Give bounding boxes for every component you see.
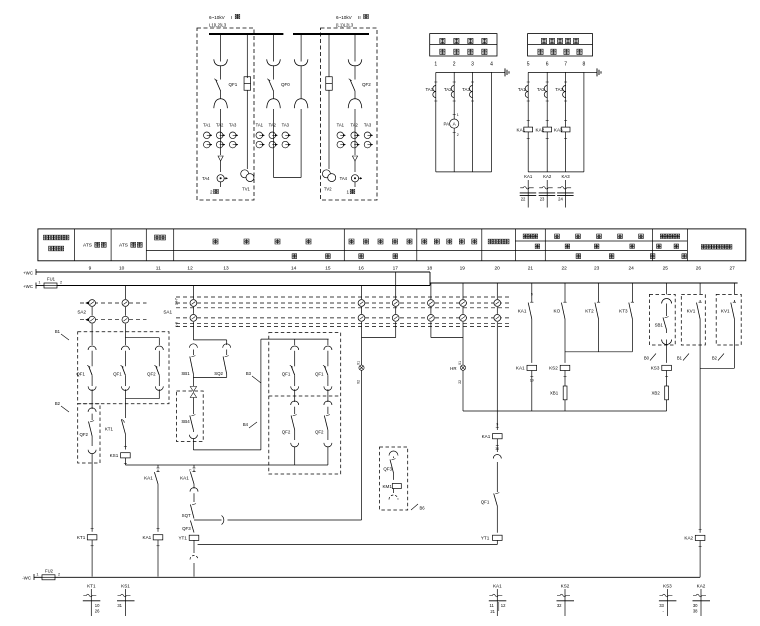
svg-text:QF1: QF1 (229, 82, 238, 87)
svg-text:24: 24 (629, 266, 635, 272)
control switch SA1 row1 dashed bundle (176, 296, 512, 298)
svg-text:2: 2 (210, 190, 213, 195)
wire SB4 to B3 feed (192, 438, 194, 450)
wire drop SA1 col12 (192, 286, 194, 300)
metering circuit frame wires (436, 71, 492, 73)
wire col21 to coil (531, 321, 533, 363)
svg-text:9: 9 (89, 266, 92, 272)
wire QF1 to QF2 col15 (327, 389, 329, 402)
table cell self hold (523, 234, 527, 238)
dashed box pushbutton SB2 col25 (666, 283, 668, 294)
wire net465 (125, 464, 328, 466)
svg-text:1: 1 (347, 190, 350, 195)
table cell signal block (660, 234, 664, 238)
svg-text:TA2: TA2 (351, 123, 359, 128)
breaker aux QF2 col9 (88, 408, 96, 412)
wire col26 down (699, 344, 701, 533)
table cell trip transfer (349, 239, 354, 244)
drawout plug col12 (193, 486, 195, 489)
box B3 callout (252, 376, 261, 383)
relay contact KT3 col24 (631, 283, 633, 300)
trip coil YT1 (189, 535, 199, 540)
svg-text:KV1: KV1 (687, 308, 696, 313)
svg-text:20: 20 (495, 266, 501, 272)
pushbutton SB1 (189, 344, 197, 348)
wire col9 B1 to B2 (91, 389, 93, 409)
svg-text:ATS: ATS (119, 243, 128, 249)
breaker aux contact QF3 col12 (190, 521, 194, 533)
wire col9 to KT1 coil (91, 453, 93, 531)
wire col22 to net411 (564, 400, 566, 411)
svg-text:KA2: KA2 (543, 174, 552, 179)
svg-text:2: 2 (453, 62, 456, 68)
wire QF1 to QF2 col14 (294, 389, 296, 402)
svg-text:12: 12 (187, 266, 193, 272)
breaker QF2 with drawout plugs (354, 34, 356, 62)
breaker aux QF2 col14 (291, 401, 299, 405)
wire KA2 to -WC (699, 541, 701, 578)
aux contact QF3 in box (393, 457, 395, 459)
wire link col10 to col13 top (125, 337, 159, 339)
svg-text:12: 12 (501, 603, 506, 608)
CT secondary TA3 metering (470, 86, 473, 98)
svg-text:KA1: KA1 (493, 584, 502, 589)
busbar I 6~10kV (209, 33, 283, 35)
svg-text:TV1: TV1 (242, 187, 250, 192)
wire col10 to net465 (124, 458, 126, 465)
svg-text:-WC: -WC (22, 576, 31, 581)
dashed box B1 breaker aux contacts (78, 332, 169, 404)
wire SA2 col10 between rows (124, 307, 126, 316)
svg-text:B6: B6 (420, 506, 426, 511)
table cell energy storage (155, 235, 160, 240)
test jack X plug col12 (192, 377, 194, 386)
table cell control bus fuse (44, 235, 49, 240)
voltage transformer TV2 (322, 170, 330, 178)
svg-text:TA2: TA2 (537, 87, 545, 92)
svg-text:15: 15 (325, 266, 331, 272)
dashed box B2 (78, 404, 100, 463)
svg-text:B1: B1 (677, 356, 683, 361)
svg-text:KM1: KM1 (382, 484, 392, 489)
svg-text:1: 1 (457, 113, 459, 117)
table column dividers (74, 229, 76, 261)
table cell close transfer (422, 239, 427, 244)
svg-text:SB4: SB4 (181, 419, 190, 424)
svg-text:7: 7 (564, 62, 567, 68)
wire link col16 col17 (361, 322, 363, 338)
table cell overcurrent protection (555, 234, 560, 239)
current relay coil KA2 (543, 127, 552, 132)
svg-text:QF2: QF2 (315, 430, 324, 435)
wire SA2 col9 between rows (91, 307, 93, 316)
surge arrester feeder I (218, 156, 223, 161)
bus-tie breaker QF0 with drawout plugs (273, 34, 275, 62)
connector line SQT to X plug (194, 519, 222, 521)
svg-text:FU2: FU2 (45, 569, 54, 574)
wire col11 to -WC (157, 540, 159, 577)
signal relay coil KS1 (124, 446, 127, 448)
svg-text:SQT: SQT (182, 513, 191, 518)
ground metering circuit (492, 71, 500, 73)
svg-text:TA3: TA3 (364, 123, 372, 128)
svg-text:SQ2: SQ2 (214, 371, 223, 376)
svg-text:KA1: KA1 (524, 174, 533, 179)
wire drop col17 (395, 272, 397, 299)
svg-text:27: 27 (730, 266, 736, 272)
svg-text:TV2: TV2 (324, 187, 332, 192)
resistor XB1 (564, 371, 566, 387)
svg-text:XB1: XB1 (550, 391, 559, 396)
breaker aux QF1 col9 (88, 346, 96, 350)
limit switch contact SQT (190, 505, 194, 519)
svg-text:23: 23 (594, 266, 600, 272)
wire col9 to -WC (91, 540, 93, 577)
trip coil YT2 (493, 535, 503, 540)
wire bus-tie bottom link (274, 177, 302, 179)
svg-text:QF1: QF1 (282, 372, 291, 377)
wire col20 mid (496, 462, 498, 492)
svg-text:B4: B4 (243, 422, 249, 427)
wire net411 (463, 410, 667, 412)
protection circuit header box (528, 34, 593, 56)
table sub row chars close trip (292, 254, 297, 259)
relay coil KA1 col21 (527, 365, 537, 370)
svg-text:22: 22 (458, 380, 462, 384)
svg-text:24: 24 (558, 197, 563, 202)
svg-text:4: 4 (490, 62, 493, 68)
svg-text:KT1: KT1 (105, 426, 114, 431)
dashed box SB4 (177, 391, 204, 442)
svg-text:SB1: SB1 (181, 371, 190, 376)
dashed box KV2 col27 (733, 283, 735, 294)
svg-text:17: 17 (393, 266, 399, 272)
svg-text:TA2: TA2 (216, 123, 224, 128)
svg-text:KA2: KA2 (697, 584, 706, 589)
svg-text:2: 2 (60, 281, 62, 285)
svg-text:QF0: QF0 (281, 82, 290, 87)
svg-text:YT1: YT1 (178, 536, 187, 541)
svg-text:X2: X2 (356, 380, 360, 384)
SA1 row2 dashed bundle (176, 317, 512, 319)
wire col10 into B1 (124, 324, 126, 345)
wire col23 to link (598, 321, 600, 352)
box B1 callout (61, 334, 69, 340)
wire col10 down (124, 399, 126, 418)
svg-text:13: 13 (223, 266, 229, 272)
relay contact KV1 col26 (699, 300, 701, 302)
svg-text:TA3: TA3 (229, 123, 237, 128)
svg-text:11: 11 (489, 603, 494, 608)
wire drop col16 (361, 286, 363, 300)
svg-text:1: 1 (38, 281, 40, 285)
svg-text:SA2: SA2 (77, 310, 86, 315)
protection circuit frame wires (528, 71, 584, 73)
SA2 row2 dashed link (80, 319, 147, 321)
CT secondary TA2 protection (544, 86, 547, 98)
PT fuse cell I (246, 34, 248, 77)
svg-text:QF1: QF1 (76, 372, 85, 377)
svg-text:KA1: KA1 (482, 434, 491, 439)
wire col11 to coil (157, 486, 159, 532)
drawout plug below YT1 (193, 540, 195, 553)
wire link col26 col27 (733, 344, 735, 368)
wire link col22-24 (565, 351, 632, 353)
wire B3 feed horizontal (261, 338, 329, 340)
ground protection circuit (584, 71, 591, 73)
svg-text:L1(L2)L3: L1(L2)L3 (209, 23, 227, 28)
svg-text:TA1: TA1 (518, 87, 526, 92)
wire drop col20 (496, 283, 498, 299)
svg-text:+WC: +WC (23, 284, 33, 289)
svg-text:QF2: QF2 (362, 82, 371, 87)
node net465 col11 (157, 465, 159, 468)
svg-text:23: 23 (540, 197, 545, 202)
svg-text:+WC: +WC (23, 270, 33, 275)
wire col25 to net411 (666, 400, 668, 411)
svg-text:TA2: TA2 (269, 123, 277, 128)
svg-text:9: 9 (531, 293, 533, 297)
svg-text:B2: B2 (55, 401, 61, 406)
svg-text:6~10kV: 6~10kV (209, 15, 226, 20)
svg-text:38: 38 (693, 609, 698, 614)
svg-text:QF2: QF2 (147, 372, 156, 377)
svg-text:30: 30 (693, 603, 698, 608)
svg-text:TA3: TA3 (555, 87, 563, 92)
svg-text:9: 9 (496, 423, 498, 427)
CT secondary TA2 metering (451, 86, 454, 98)
wire link SB1 SQ2 bottom (192, 374, 194, 377)
svg-text:KV1: KV1 (721, 308, 730, 313)
svg-text:B0: B0 (644, 356, 650, 361)
SA2 row2 contact circles (89, 316, 96, 323)
incoming section II dashed cubicle box (321, 28, 378, 200)
surge arrester feeder II (352, 156, 357, 161)
svg-text:KA1: KA1 (180, 476, 189, 481)
svg-text:KT1: KT1 (77, 535, 86, 540)
svg-text:16: 16 (358, 266, 364, 272)
relay coil KA2 (699, 529, 702, 531)
svg-text:KS1: KS1 (110, 453, 119, 458)
current relay coil KA1 (524, 127, 533, 132)
svg-text:B2: B2 (712, 356, 718, 361)
svg-text:B1: B1 (55, 329, 61, 334)
wire col12 row2 down (192, 322, 194, 340)
svg-text:QF2: QF2 (79, 432, 88, 437)
table sub row chars signal circuit (576, 254, 581, 259)
svg-text:KA3: KA3 (562, 174, 571, 179)
box B3 internal divider (269, 395, 341, 397)
relay contact KT2 col23 (598, 283, 600, 300)
svg-text:KT2: KT2 (585, 308, 594, 313)
svg-text:19: 19 (460, 266, 466, 272)
CT secondary TA1 metering (433, 86, 436, 98)
svg-text:5: 5 (527, 62, 530, 68)
svg-text:KA2: KA2 (536, 127, 545, 132)
svg-text:XB2: XB2 (651, 391, 660, 396)
svg-text:TA1: TA1 (256, 123, 264, 128)
busbar II 6~10kV (293, 33, 369, 35)
svg-text:KA1: KA1 (144, 476, 153, 481)
table row divider right upper (515, 240, 687, 242)
breaker aux QF2 col13 (155, 346, 163, 350)
svg-text:25: 25 (663, 266, 669, 272)
svg-text:TA4: TA4 (340, 176, 348, 181)
svg-text:SB1: SB1 (655, 322, 664, 327)
svg-text:1: 1 (434, 62, 437, 68)
svg-text:KO: KO (554, 308, 561, 313)
svg-text:KS2: KS2 (561, 584, 570, 589)
breaker aux QF1 col20 (494, 494, 498, 507)
current relay coil KA3 (561, 127, 570, 132)
svg-text:X1: X1 (356, 361, 360, 365)
wire col22 down (564, 321, 566, 363)
svg-text:KS1: KS1 (121, 584, 130, 589)
wires B3 columns to net465 (294, 447, 296, 466)
wire col21 to net411 (531, 371, 533, 412)
svg-text:31: 31 (117, 603, 122, 608)
svg-text:TA2: TA2 (444, 87, 452, 92)
svg-text:KT3: KT3 (619, 308, 628, 313)
svg-text:21: 21 (528, 266, 534, 272)
wire YT link (496, 540, 498, 544)
svg-text:KA1: KA1 (516, 366, 525, 371)
voltage transformer TV1 (241, 170, 249, 178)
relay contact KA1 col11 (157, 470, 159, 472)
svg-text:33: 33 (659, 603, 664, 608)
box B2 callout (61, 406, 69, 412)
svg-text:32: 32 (557, 603, 562, 608)
incoming section I dashed cubicle box (197, 28, 254, 200)
wire link col18 col19 (430, 322, 432, 338)
svg-text:11: 11 (156, 266, 161, 272)
svg-text:TA3: TA3 (282, 123, 290, 128)
plug arc below KM1 (393, 489, 395, 494)
wire link col10 col13 bottom (124, 389, 126, 398)
signal relay coil KS3 (662, 365, 672, 370)
svg-text:QF3: QF3 (182, 526, 191, 531)
plug arc in QF3 box (389, 451, 398, 456)
svg-text:8: 8 (583, 62, 586, 68)
svg-text:2: 2 (58, 572, 60, 576)
svg-text:24-7: 24-7 (175, 298, 179, 305)
table sub row chars protect device (535, 244, 539, 248)
callout B0 col25 (650, 354, 656, 361)
SA2 row1 contact circles (89, 300, 96, 307)
relay coil KA1 col11 (157, 528, 160, 530)
svg-text:TA4: TA4 (202, 176, 210, 181)
time relay coil KT1 (91, 528, 94, 530)
wire drop col18 (430, 283, 432, 299)
drawout plug col20 (496, 439, 498, 452)
rail step at x430 (429, 272, 431, 286)
metering circuit header box (430, 34, 497, 56)
wire drop col19 (462, 283, 464, 299)
svg-text:ATS: ATS (83, 243, 92, 249)
svg-text:TA1: TA1 (425, 87, 433, 92)
svg-text:QF1: QF1 (481, 500, 490, 505)
time delay contact KT1 (121, 420, 124, 423)
svg-text:FU1: FU1 (47, 277, 56, 282)
svg-text:II: II (358, 15, 361, 21)
svg-text:YT1: YT1 (481, 536, 490, 541)
svg-text:QF1: QF1 (113, 372, 122, 377)
svg-text:QF1: QF1 (315, 372, 324, 377)
dashed box B3 (269, 333, 341, 475)
breaker aux QF1 col14 (291, 346, 299, 350)
relay contact KV2 col27 (733, 300, 735, 302)
CT secondary TA3 protection (563, 86, 566, 98)
svg-text:QF3: QF3 (383, 466, 392, 471)
relay coil KA1 col20 (496, 426, 499, 428)
svg-text:KA1: KA1 (143, 535, 152, 540)
contactor coil KM1 (393, 473, 395, 480)
svg-text:26: 26 (696, 266, 702, 272)
protection header text row1 (541, 38, 546, 43)
svg-text:26: 26 (95, 609, 100, 614)
callout B1 col26 (683, 354, 689, 361)
CT secondary TA1 protection (525, 86, 528, 98)
relay contact KO col22 (564, 283, 566, 300)
PT fuse cell II (328, 34, 330, 77)
table cell power monitor circuit (701, 245, 706, 250)
svg-text:22: 22 (562, 266, 568, 272)
svg-text:KS2: KS2 (549, 366, 558, 371)
svg-text:SA1: SA1 (163, 310, 172, 315)
svg-text:X1: X1 (458, 361, 462, 365)
limit switch SQ2 (223, 344, 231, 348)
SA1 row2 contact circles (190, 315, 197, 322)
svg-text:HR: HR (450, 366, 456, 371)
breaker QF1 with drawout plugs (220, 34, 222, 62)
wire col9 into B1 (91, 324, 93, 345)
svg-text:KS3: KS3 (663, 584, 672, 589)
svg-text:TA1: TA1 (203, 123, 211, 128)
svg-text:18: 18 (427, 266, 433, 272)
breaker aux QF2 col15 (324, 401, 332, 405)
svg-text:21: 21 (490, 609, 495, 614)
wire col20 down (496, 322, 498, 430)
svg-text:2: 2 (457, 133, 459, 137)
callout B4 on feed wire (249, 422, 257, 428)
svg-text:22: 22 (521, 197, 526, 202)
svg-text:QF2: QF2 (282, 430, 291, 435)
pull plug SB1 col25 (662, 299, 672, 304)
svg-text:10: 10 (119, 266, 125, 272)
svg-text:1-3: 1-3 (175, 322, 179, 327)
dashed box KV1 col26 (699, 283, 701, 294)
svg-text:6: 6 (546, 62, 549, 68)
callout B6 (411, 504, 418, 510)
svg-text:I: I (231, 15, 232, 21)
svg-text:1: 1 (36, 572, 38, 576)
wires between SA1 rows (192, 307, 194, 314)
relay contact KA1 col12 (193, 470, 195, 472)
relay contact KA1 col21 (531, 283, 533, 300)
bus right rail (430, 282, 738, 284)
svg-text:6~10kV: 6~10kV (336, 15, 353, 20)
svg-text:KA2: KA2 (684, 536, 693, 541)
svg-text:KA1: KA1 (518, 308, 527, 313)
svg-text:3: 3 (471, 62, 474, 68)
wire drop SA2 col10 (124, 286, 126, 300)
node net465 col12 (193, 465, 195, 468)
control switch SA2 row1 dashed link (80, 302, 147, 304)
table cell trip circuit (488, 239, 493, 244)
protection header text row2 (538, 49, 543, 54)
bus-tie disconnect column with drawout plugs (300, 34, 302, 62)
dashed box QF3 KM1 (380, 447, 408, 510)
